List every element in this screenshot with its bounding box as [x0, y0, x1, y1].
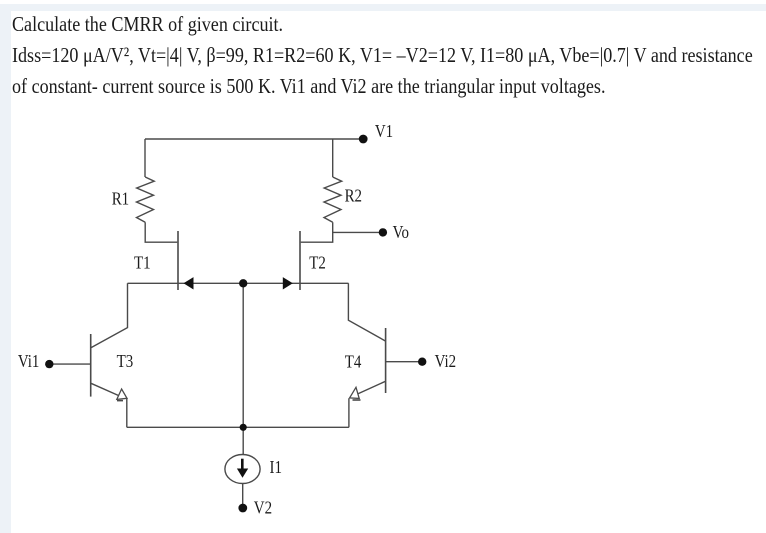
svg-text:Vi1: Vi1: [18, 350, 40, 371]
svg-text:T3: T3: [117, 351, 134, 372]
svg-text:R2: R2: [345, 185, 362, 206]
svg-text:V2: V2: [254, 497, 272, 518]
svg-text:V1: V1: [375, 121, 393, 142]
svg-text:I1: I1: [270, 457, 282, 478]
svg-text:Vi2: Vi2: [435, 351, 457, 372]
svg-text:Vo: Vo: [393, 222, 409, 243]
svg-text:T4: T4: [345, 351, 362, 372]
svg-text:T2: T2: [309, 252, 326, 273]
svg-text:R1: R1: [112, 188, 129, 209]
svg-text:T1: T1: [134, 252, 151, 273]
